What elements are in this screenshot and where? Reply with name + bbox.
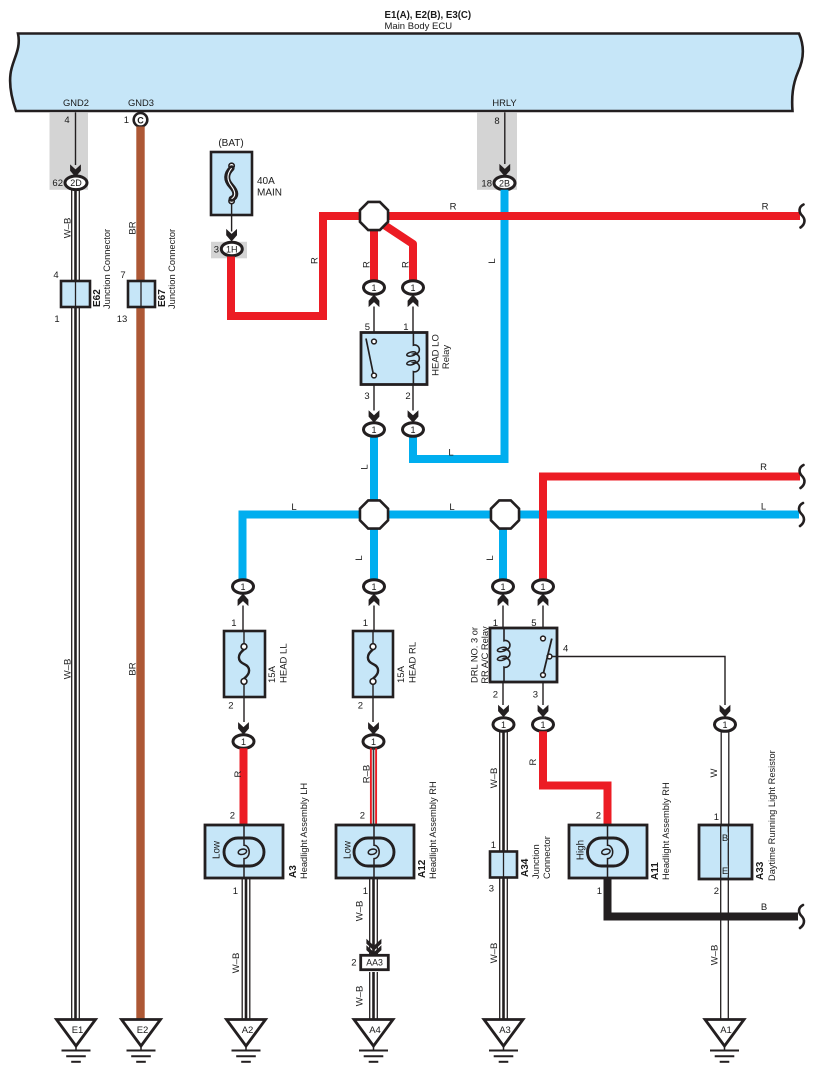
svg-text:L: L	[761, 502, 766, 513]
svg-text:W–B: W–B	[710, 945, 721, 966]
svg-text:7: 7	[120, 270, 125, 281]
svg-text:1: 1	[597, 886, 602, 897]
svg-text:W–B: W–B	[489, 943, 500, 964]
svg-text:E1: E1	[72, 1025, 84, 1036]
svg-text:R: R	[233, 770, 244, 777]
svg-text:A33: A33	[755, 861, 766, 880]
svg-text:2: 2	[493, 690, 498, 701]
svg-text:1: 1	[500, 582, 505, 592]
svg-text:2: 2	[358, 701, 363, 712]
svg-text:8: 8	[494, 116, 499, 127]
svg-text:W–B: W–B	[355, 901, 366, 922]
svg-text:Low: Low	[343, 840, 354, 859]
svg-text:2: 2	[596, 811, 601, 822]
svg-text:1: 1	[371, 283, 376, 293]
svg-text:1: 1	[714, 812, 719, 823]
svg-text:GND3: GND3	[128, 97, 154, 108]
svg-text:L: L	[448, 448, 453, 459]
svg-text:62: 62	[52, 178, 63, 189]
svg-text:2: 2	[230, 811, 235, 822]
svg-text:R: R	[362, 261, 373, 268]
svg-text:Junction Connector: Junction Connector	[167, 229, 177, 309]
svg-text:1: 1	[124, 115, 129, 126]
svg-text:1: 1	[371, 425, 376, 435]
svg-text:2: 2	[360, 811, 365, 822]
svg-text:A4: A4	[369, 1025, 381, 1036]
svg-text:A3: A3	[499, 1025, 511, 1036]
svg-text:Junction: Junction	[531, 844, 541, 879]
svg-text:W–B: W–B	[63, 218, 74, 239]
svg-text:R: R	[450, 202, 457, 213]
svg-text:R: R	[528, 758, 539, 765]
svg-text:2D: 2D	[70, 178, 82, 188]
svg-text:L: L	[360, 464, 371, 469]
svg-text:3: 3	[533, 690, 538, 701]
svg-text:L: L	[291, 502, 296, 513]
svg-text:1: 1	[410, 283, 415, 293]
svg-text:W–B: W–B	[231, 953, 242, 974]
svg-text:E1(A), E2(B), E3(C): E1(A), E2(B), E3(C)	[385, 10, 472, 21]
svg-text:40A: 40A	[257, 176, 275, 187]
svg-text:GND2: GND2	[63, 97, 89, 108]
svg-text:A1: A1	[720, 1025, 732, 1036]
svg-text:C: C	[137, 115, 144, 125]
svg-text:L: L	[485, 555, 496, 560]
svg-text:AA3: AA3	[366, 957, 383, 967]
svg-text:A34: A34	[520, 858, 531, 877]
svg-text:HEAD RL: HEAD RL	[408, 642, 419, 683]
svg-text:4: 4	[64, 115, 69, 126]
svg-text:1: 1	[540, 582, 545, 592]
svg-text:MAIN: MAIN	[257, 188, 282, 199]
svg-text:Headlight Assembly LH: Headlight Assembly LH	[299, 783, 309, 879]
svg-text:W–B: W–B	[489, 768, 500, 789]
svg-text:13: 13	[117, 314, 128, 325]
svg-text:High: High	[576, 840, 587, 860]
svg-text:R: R	[401, 261, 412, 268]
svg-text:2B: 2B	[499, 178, 510, 188]
svg-text:1: 1	[363, 618, 368, 629]
svg-text:2: 2	[714, 886, 719, 897]
svg-text:L: L	[487, 258, 498, 263]
svg-text:Headlight Assembly RH: Headlight Assembly RH	[661, 782, 671, 880]
svg-text:DRL NO. 3 or: DRL NO. 3 or	[470, 627, 480, 683]
svg-text:Headlight Assembly RH: Headlight Assembly RH	[428, 781, 438, 879]
svg-text:3: 3	[364, 391, 369, 402]
svg-text:1: 1	[540, 720, 545, 730]
svg-text:2: 2	[351, 958, 356, 969]
svg-text:HEAD LL: HEAD LL	[279, 643, 290, 683]
svg-text:L: L	[354, 555, 365, 560]
svg-text:RR A/C Relay: RR A/C Relay	[480, 626, 490, 684]
svg-text:W–B: W–B	[63, 659, 74, 680]
svg-text:B: B	[761, 902, 767, 913]
svg-text:15A: 15A	[267, 665, 278, 683]
svg-text:A11: A11	[650, 862, 661, 880]
svg-text:4: 4	[53, 270, 58, 281]
svg-text:Connector: Connector	[542, 836, 552, 879]
svg-text:3: 3	[489, 884, 494, 895]
svg-text:BR: BR	[128, 221, 139, 234]
svg-text:2: 2	[228, 701, 233, 712]
svg-text:R: R	[310, 257, 321, 264]
svg-text:Daytime Running Light Resistor: Daytime Running Light Resistor	[767, 750, 777, 881]
svg-text:1: 1	[241, 737, 246, 747]
svg-text:1: 1	[722, 720, 727, 730]
svg-text:18: 18	[481, 179, 492, 190]
svg-text:HRLY: HRLY	[492, 97, 517, 108]
svg-text:1: 1	[501, 720, 506, 730]
svg-text:1: 1	[54, 314, 59, 325]
svg-text:A3: A3	[288, 865, 299, 878]
svg-text:1H: 1H	[226, 244, 238, 254]
svg-text:1: 1	[233, 886, 238, 897]
svg-text:2: 2	[405, 391, 410, 402]
svg-text:W: W	[709, 768, 720, 777]
svg-text:A12: A12	[417, 859, 428, 878]
svg-text:E: E	[722, 866, 728, 877]
svg-text:R: R	[762, 202, 769, 213]
svg-text:A2: A2	[242, 1025, 254, 1036]
svg-text:1: 1	[371, 737, 376, 747]
svg-text:Relay: Relay	[441, 345, 452, 370]
svg-text:BR: BR	[128, 662, 139, 675]
svg-text:1: 1	[240, 582, 245, 592]
svg-text:(BAT): (BAT)	[218, 138, 243, 149]
svg-text:4: 4	[563, 644, 568, 655]
svg-text:R–B: R–B	[362, 765, 373, 783]
svg-text:E2: E2	[137, 1025, 149, 1036]
svg-text:1: 1	[363, 886, 368, 897]
svg-text:1: 1	[491, 840, 496, 851]
svg-text:15A: 15A	[396, 665, 407, 683]
svg-text:L: L	[449, 502, 454, 513]
svg-text:R: R	[760, 462, 767, 473]
svg-text:Junction Connector: Junction Connector	[102, 229, 112, 309]
svg-text:1: 1	[410, 425, 415, 435]
svg-text:3: 3	[214, 245, 219, 256]
svg-text:W–B: W–B	[355, 986, 366, 1007]
svg-text:Main Body ECU: Main Body ECU	[385, 21, 453, 32]
svg-text:Low: Low	[212, 840, 223, 859]
svg-text:1: 1	[371, 582, 376, 592]
svg-text:B: B	[722, 833, 728, 844]
svg-text:HEAD LO: HEAD LO	[431, 334, 442, 376]
svg-text:1: 1	[231, 618, 236, 629]
